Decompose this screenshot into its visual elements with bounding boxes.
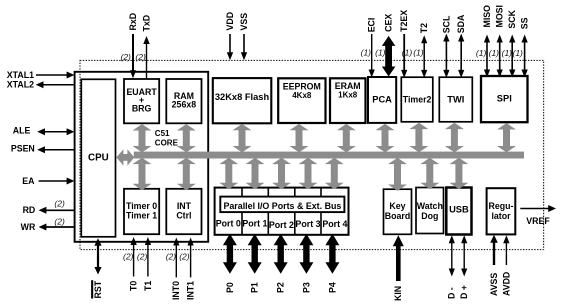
svg-text:Dog: Dog (421, 211, 438, 221)
svg-text:D -: D - (447, 287, 457, 299)
bus arrow to KeyBoard (388, 158, 407, 191)
svg-text:Regu-: Regu- (489, 201, 514, 211)
wire ECI (369, 34, 375, 78)
svg-text:(1): (1) (361, 48, 372, 58)
svg-text:AVDD: AVDD (501, 272, 511, 296)
bus arrow to INTCtrl (177, 158, 196, 191)
wire SCK (509, 35, 515, 78)
svg-text:SCK: SCK (507, 9, 517, 28)
svg-text:Timer2: Timer2 (403, 94, 432, 104)
wire CEX (382, 36, 396, 77)
wire P0 (223, 234, 237, 274)
wire EA (39, 178, 75, 185)
svg-text:SPI: SPI (497, 93, 512, 103)
svg-text:WR: WR (21, 222, 36, 232)
svg-text:(1): (1) (375, 48, 386, 58)
bus arrow to Port3 (299, 158, 318, 190)
svg-text:ERAM: ERAM (335, 81, 361, 91)
svg-text:CPU: CPU (88, 153, 109, 164)
svg-text:Port 1: Port 1 (242, 219, 267, 229)
svg-text:P0: P0 (225, 282, 235, 293)
svg-text:SDA: SDA (456, 14, 466, 33)
svg-text:T1: T1 (143, 281, 153, 291)
svg-text:EA: EA (22, 176, 35, 186)
svg-text:XTAL1: XTAL1 (7, 70, 34, 80)
svg-text:P2: P2 (276, 282, 286, 293)
wire T1 (145, 237, 151, 277)
svg-text:D +: D + (459, 285, 469, 299)
wire KIN (393, 235, 404, 281)
svg-text:TWI: TWI (447, 94, 464, 104)
block Watch Dog (416, 188, 444, 234)
svg-text:Port 3: Port 3 (295, 219, 320, 229)
svg-text:AVSS: AVSS (489, 273, 499, 296)
svg-text:4Kx8: 4Kx8 (292, 91, 312, 100)
wire VREF (520, 205, 556, 212)
block SPI (481, 76, 528, 122)
svg-text:P1: P1 (250, 282, 260, 293)
svg-text:KIN: KIN (393, 286, 403, 301)
svg-text:TxD: TxD (141, 15, 151, 32)
svg-text:C51: C51 (155, 129, 170, 138)
svg-text:(2): (2) (54, 217, 65, 227)
system data bus (134, 152, 524, 159)
block INT Ctrl (166, 189, 201, 234)
svg-text:VSS: VSS (239, 13, 249, 31)
svg-text:(2): (2) (121, 52, 132, 62)
bus arrow to WatchDog (420, 158, 439, 189)
block Regulator (487, 188, 516, 234)
wire WR (39, 224, 74, 231)
bus arrow to Timer01 (133, 158, 152, 191)
bus arrow to Port2 (272, 158, 291, 190)
block TWI (439, 77, 472, 122)
svg-text:MISO: MISO (482, 5, 492, 28)
svg-text:MOSI: MOSI (495, 5, 505, 27)
svg-text:(2): (2) (135, 52, 146, 62)
svg-text:(2): (2) (179, 251, 190, 261)
wire RD (39, 207, 74, 214)
svg-text:(1): (1) (502, 48, 513, 58)
block ERAM 1Kx8 (330, 78, 366, 123)
svg-text:P3: P3 (301, 282, 311, 293)
svg-text:CORE: CORE (155, 138, 179, 147)
svg-text:T0: T0 (129, 281, 139, 291)
svg-text:(1): (1) (413, 48, 424, 58)
svg-text:VDD: VDD (225, 12, 235, 31)
svg-text:RD: RD (23, 205, 36, 215)
svg-text:(2): (2) (54, 199, 65, 209)
svg-text:T2EX: T2EX (399, 10, 409, 32)
svg-text:CEX: CEX (384, 14, 394, 32)
svg-text:(2): (2) (137, 251, 148, 261)
cpu bus link double arrow (116, 149, 134, 165)
svg-text:1Kx8: 1Kx8 (338, 91, 358, 100)
svg-text:ALE: ALE (13, 126, 31, 136)
wire ALE (37, 128, 74, 135)
wire SS (522, 35, 528, 78)
svg-text:(1): (1) (402, 48, 413, 58)
block USB (446, 188, 471, 235)
bus arrow to USB (449, 158, 468, 189)
bus arrow to EUART (133, 124, 152, 152)
bus arrow to TWI (445, 123, 464, 153)
block CPU (81, 79, 115, 237)
svg-text:T2: T2 (419, 23, 429, 33)
block ports label banner (220, 197, 344, 213)
wire AVDD (503, 235, 509, 265)
svg-text:VREF: VREF (526, 216, 550, 226)
wire D+ (461, 235, 467, 276)
svg-text:lator: lator (491, 211, 511, 221)
bus arrow to EEPROM (290, 124, 309, 152)
bus arrow to PCA (376, 124, 395, 153)
bus arrow to Port0 (219, 158, 238, 190)
wire XTAL2 (36, 81, 74, 88)
wire MISO (484, 35, 490, 78)
svg-text:(2): (2) (166, 251, 177, 261)
svg-text:(1): (1) (489, 48, 500, 58)
bus arrow to SPI (497, 123, 516, 152)
wire MOSI (497, 35, 503, 78)
wire INT0 (173, 238, 179, 278)
wire PSEN (37, 146, 74, 153)
svg-text:PSEN: PSEN (11, 144, 35, 154)
svg-text:RST: RST (93, 280, 103, 298)
wire XTAL1 (36, 72, 74, 79)
block Timer 0 / Timer 1 (124, 189, 159, 234)
svg-text:EEPROM: EEPROM (283, 82, 321, 92)
block PCA (368, 77, 396, 123)
svg-text:XTAL2: XTAL2 (7, 79, 34, 89)
wire D- (449, 235, 455, 276)
svg-text:ECI: ECI (367, 18, 377, 33)
bus arrow to Flash (233, 124, 252, 152)
wire RST (94, 238, 101, 274)
svg-text:Board: Board (385, 211, 410, 221)
block Parallel I/O Ports outer (215, 188, 349, 235)
wire AVSS (490, 235, 498, 265)
block RAM 256x8 (166, 79, 201, 123)
svg-text:SCL: SCL (441, 15, 451, 33)
svg-text:Port 0: Port 0 (216, 219, 241, 229)
svg-text:Ctrl: Ctrl (176, 210, 191, 220)
pin label RST (91, 280, 103, 298)
chip package boundary (dotted) (80, 60, 544, 249)
svg-text:(1): (1) (476, 48, 487, 58)
bus arrow to Port4 (325, 158, 344, 190)
block 32Kx8 Flash (213, 78, 271, 123)
block EUART+BRG (124, 79, 159, 123)
block Key Board (384, 189, 412, 234)
wire SDA (458, 34, 464, 78)
svg-text:INT0: INT0 (171, 281, 181, 300)
wire T0 (130, 237, 136, 277)
svg-text:Port 4: Port 4 (322, 219, 347, 229)
bus arrow to RAM (177, 124, 196, 152)
wire VDD (227, 34, 233, 60)
wire TxD (143, 36, 149, 79)
svg-text:32Kx8 Flash: 32Kx8 Flash (215, 92, 270, 102)
svg-text:256x8: 256x8 (172, 100, 197, 110)
wire P3 (299, 234, 313, 274)
bus arrow to Port1 (246, 158, 265, 190)
wire P4 (325, 234, 339, 274)
core module boundary box (75, 72, 209, 242)
wire P1 (248, 234, 262, 274)
svg-text:SS: SS (520, 17, 530, 29)
svg-text:Watch: Watch (417, 201, 443, 211)
svg-text:BRG: BRG (132, 103, 152, 113)
block EEPROM 4Kx8 (278, 78, 325, 123)
svg-text:PCA: PCA (372, 94, 392, 104)
wire SCL (443, 34, 449, 78)
bus arrow to Timer2 (409, 123, 428, 153)
svg-text:Parallel I/O Ports & Ext. Bus: Parallel I/O Ports & Ext. Bus (223, 201, 341, 211)
wire T2 (421, 35, 427, 78)
svg-text:P4: P4 (327, 282, 337, 293)
wire P2 (274, 234, 288, 274)
svg-text:USB: USB (449, 205, 469, 215)
port column dividers (241, 188, 243, 235)
wire RxD (130, 34, 136, 78)
svg-text:INT1: INT1 (186, 281, 196, 300)
svg-text:Port 2: Port 2 (269, 220, 294, 230)
bus arrow to ERAM (337, 124, 356, 152)
svg-text:Timer 1: Timer 1 (126, 210, 157, 220)
wire INT1 (187, 238, 193, 278)
svg-text:RxD: RxD (128, 13, 138, 31)
wire VSS (241, 34, 247, 60)
block Timer2 (401, 77, 433, 122)
wire T2EX (401, 34, 407, 78)
svg-text:Key: Key (389, 201, 405, 211)
svg-text:(1): (1) (513, 48, 524, 58)
svg-text:(2): (2) (123, 251, 134, 261)
